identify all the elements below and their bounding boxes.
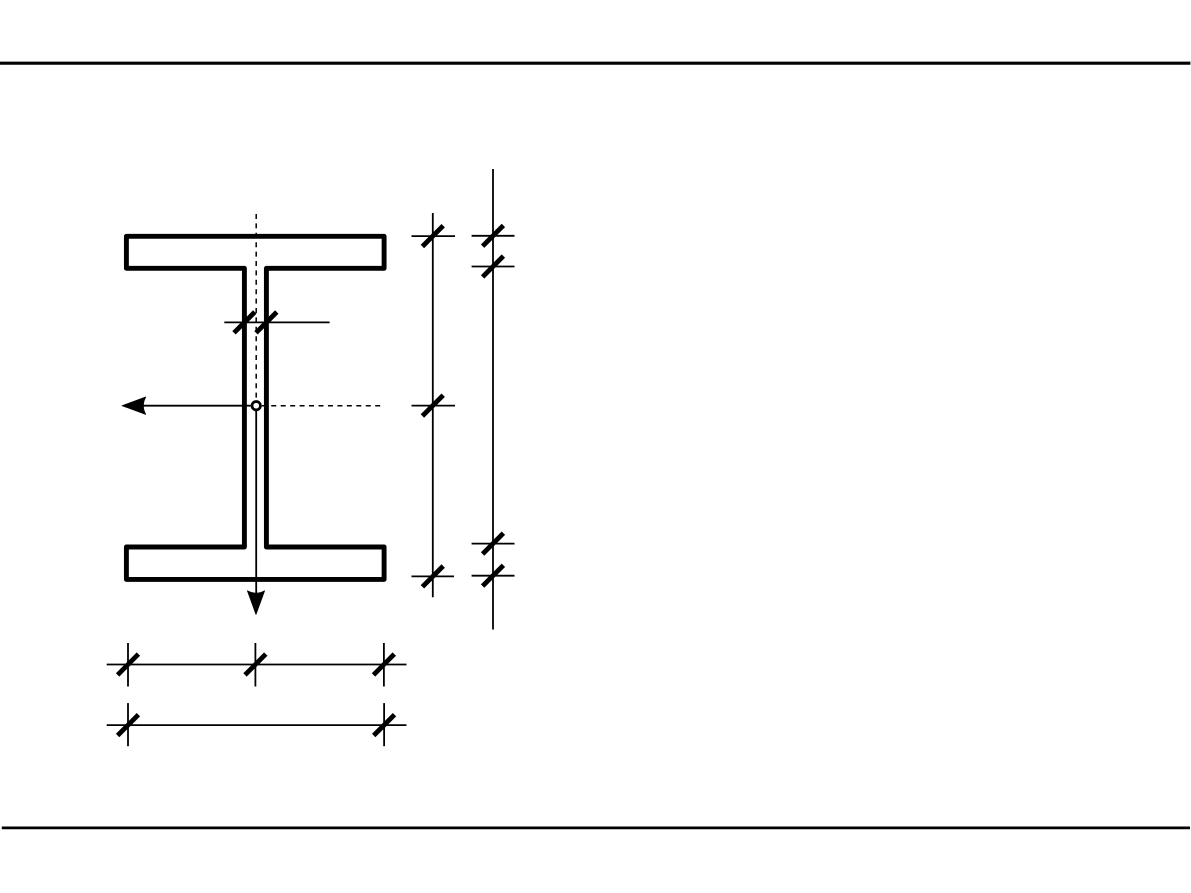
extension line top flange bottom — [472, 266, 515, 268]
header rule — [0, 62, 1190, 65]
horizontal dashed centroid axis — [262, 405, 383, 407]
tick full width right — [374, 715, 395, 736]
inner right dimension line (beam height) — [432, 213, 434, 597]
tick half-width middle — [245, 654, 266, 675]
y-axis arrow shaft (downwards) — [255, 408, 257, 596]
web thickness dimension line — [224, 321, 329, 323]
web dimension tick left — [234, 312, 255, 333]
I-beam cross-section outline — [126, 236, 384, 579]
extension line full width left — [127, 703, 129, 746]
z-axis arrowhead — [122, 397, 146, 414]
tick half-width right — [374, 654, 395, 675]
lowest dimension line (full width) — [107, 724, 407, 726]
extension line beam right edge — [383, 643, 385, 687]
tick half-width left — [118, 654, 139, 675]
vertical dashed centerline — [255, 214, 257, 400]
tick full width left — [118, 715, 139, 736]
extension line bottom flange top — [472, 543, 515, 545]
outer right dimension line (flange spacing) — [492, 169, 494, 630]
lower dimension line (half widths) — [107, 664, 407, 666]
tick bottom flange top — [483, 533, 504, 554]
z-axis arrow shaft (leftwards) — [140, 405, 251, 407]
extension line beam left edge — [127, 643, 129, 687]
web dimension tick right — [256, 312, 277, 333]
centroid circle — [252, 402, 260, 410]
y-axis arrowhead — [247, 591, 264, 615]
footer rule — [2, 827, 1190, 830]
extension line centroid axis — [412, 405, 456, 407]
extension line bottom flange bottom — [472, 575, 515, 577]
tick top flange bottom — [483, 256, 504, 277]
extension line beam centerline — [254, 643, 256, 687]
extension line top of beam — [412, 235, 456, 237]
tick bottom flange bottom — [483, 565, 504, 586]
tick top flange top — [483, 225, 504, 246]
extension line full width right — [383, 703, 385, 746]
extension line bottom of beam — [412, 575, 455, 577]
tick centroid axis — [422, 395, 443, 416]
tick bottom of beam — [422, 566, 443, 587]
extension line top flange top — [472, 235, 515, 237]
tick top of beam — [422, 226, 443, 247]
